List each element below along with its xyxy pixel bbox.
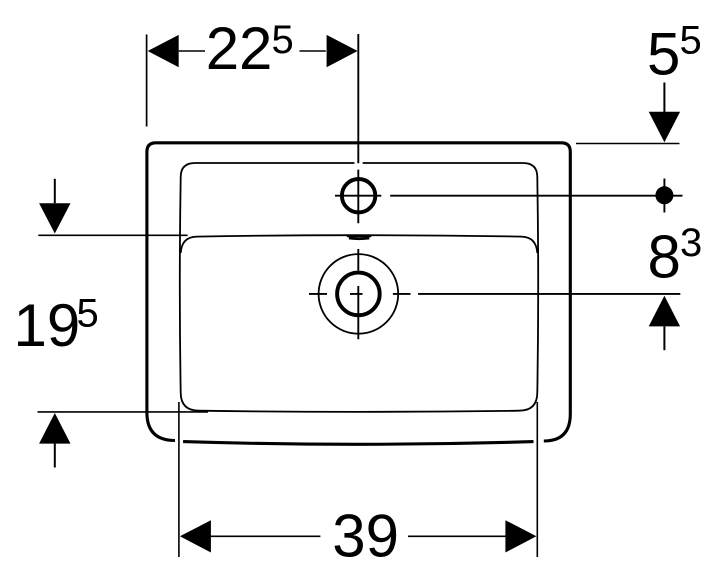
svg-text:19: 19 [14,292,81,359]
dim 8.3 dot vertical tick [663,179,665,213]
drain inner ring [337,273,380,316]
dim 5.5 stem line [663,83,665,113]
drain crosshair vertical [357,249,359,339]
svg-text:39: 39 [332,503,399,570]
dim 19.5 top extension line [38,234,187,236]
svg-text:5: 5 [272,18,294,62]
dim 5.5 extension line at basin top level [576,143,680,145]
dim 39 right extension line [536,402,538,557]
dim 39 left extension line [178,402,180,557]
dim 5.5 down arrow [649,112,680,143]
svg-text:5: 5 [647,21,680,88]
bowl top edge [181,235,538,253]
faucet centerline vertical [357,34,359,223]
svg-text:5: 5 [77,292,99,336]
dim 19.5 top stem line [54,179,56,203]
svg-text:5: 5 [680,19,702,63]
svg-text:22: 22 [206,15,273,82]
dim 22.5 left arrow [148,35,179,67]
overflow slot dash [347,236,371,239]
dim 19.5 top arrow (down) [39,203,70,233]
dim 22.5 left extension tick [146,35,148,127]
dim 39 left arrow [180,520,211,552]
dim 19.5 bottom arrow (up) [39,413,70,444]
dim 19.5 bottom extension line [38,411,209,413]
dim 22.5 right arrow [327,35,358,67]
faucet hole F1 [342,179,375,212]
drain outer circle D1 [319,254,399,334]
dim 8.3 dot at faucet level [655,186,673,204]
basin rim / bowl shared outline [180,163,538,412]
svg-text:8: 8 [648,224,681,291]
dim 22.5 dimension line [179,50,326,52]
basin outer bottom edge [183,442,533,445]
dim 8.3 stem line [663,326,665,350]
faucet centerline horizontal / 8.3 upper extension line to dot [335,195,683,197]
dim 39 right arrow [505,520,536,552]
dim 19.5 bottom stem line [54,444,56,468]
svg-text:3: 3 [680,221,702,265]
drain crosshair horizontal / 8.3 lower extension line [309,293,680,295]
dim 8.3 up arrow at drain level [649,296,680,327]
dim 39 dimension line [211,535,506,537]
basin outer ceramic outline [147,143,570,441]
